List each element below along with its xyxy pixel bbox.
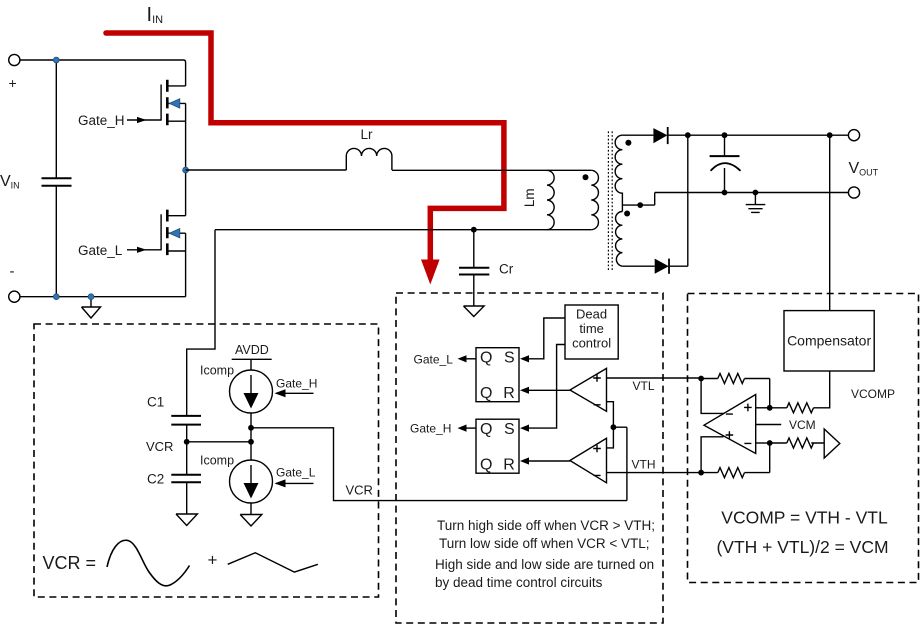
dead time control box <box>565 305 618 359</box>
transformer primary winding <box>591 170 598 229</box>
node dot bridge midpoint (blue) <box>183 167 189 173</box>
comparator VTH polarity marks <box>593 445 601 476</box>
svg-text:control: control <box>572 336 611 351</box>
inductor Lr <box>346 148 392 170</box>
ground (Cr) <box>464 306 485 317</box>
output capacitor <box>724 135 726 192</box>
wire -input <box>756 442 770 444</box>
transistor Q low-side: gate bar <box>160 214 162 250</box>
svg-text:C1: C1 <box>147 395 164 410</box>
node dot top rail (blue) <box>53 57 59 63</box>
node dot +input <box>767 405 773 411</box>
svg-text:VTH: VTH <box>632 458 656 472</box>
svg-text:High side and low side are tur: High side and low side are turned on <box>435 557 654 572</box>
svg-text:Lm: Lm <box>522 188 537 207</box>
ground (lower current source) <box>240 503 262 526</box>
svg-text:Gate_L: Gate_L <box>414 352 454 366</box>
secondary winding bottom <box>616 212 623 267</box>
resistor R3 <box>787 438 814 448</box>
diode D1 (top) <box>653 128 667 143</box>
Q low-side source/body wires <box>167 233 185 297</box>
svg-text:Gate_H: Gate_H <box>276 377 317 391</box>
input terminal - (bottom-left) <box>9 291 20 302</box>
svg-text:VCOMP: VCOMP <box>851 387 895 401</box>
Gate_H output arrow <box>461 427 476 429</box>
svg-text:S: S <box>504 350 515 367</box>
Q high-side channel dashes <box>166 80 169 126</box>
Q high-side gate wire <box>127 119 161 121</box>
svg-text:(VTH + VTL)/2 = VCM: (VTH + VTL)/2 = VCM <box>716 537 888 557</box>
wire VOUT to compensator <box>829 135 831 310</box>
diff amp triangle <box>704 395 756 454</box>
svg-text:+: + <box>9 75 17 91</box>
svg-text:time: time <box>579 321 604 336</box>
buffer VCM <box>824 429 840 458</box>
wire comp2 out to R of FF2 <box>523 460 570 462</box>
wire diff amp lower output <box>701 437 723 473</box>
node dot -input <box>767 440 773 446</box>
Q low-side channel dashes <box>166 210 169 256</box>
capacitor C2 <box>186 442 188 514</box>
node dot VCR left <box>184 439 190 445</box>
Gate_L arrow into source <box>276 482 314 484</box>
diode D2 (bottom) <box>655 259 669 274</box>
svg-text:Lr: Lr <box>361 127 374 142</box>
svg-text:Turn high side off when VCR >: Turn high side off when VCR > VTH; <box>437 518 655 533</box>
svg-text:+: + <box>208 551 218 570</box>
Gate_L output arrow <box>461 358 476 360</box>
wire VCR node <box>187 441 251 443</box>
svg-text:Q: Q <box>480 385 492 402</box>
resistor R4 <box>718 468 745 478</box>
AVDD supply bar <box>232 359 272 370</box>
wire VTL <box>607 377 702 379</box>
wire center tap <box>622 193 654 206</box>
svg-text:VCOMP = VTH - VTL: VCOMP = VTH - VTL <box>721 508 888 528</box>
svg-text:R: R <box>503 456 515 473</box>
current source Icomp (upper) <box>230 370 273 413</box>
primary polarity dot <box>583 174 589 180</box>
node dot VCR out <box>248 425 254 431</box>
wire output top rail <box>668 134 849 136</box>
Q high-side body arrow (blue) <box>169 99 180 108</box>
svg-text:Gate_H: Gate_H <box>410 422 451 436</box>
wire DTC to S of FF1 <box>523 318 565 359</box>
capacitor C1 <box>171 416 201 425</box>
Q high-side source/body wires <box>167 103 185 170</box>
wire resonant return rail <box>215 229 591 231</box>
secondary polarity dot top <box>625 140 631 146</box>
node dot VTH feedback <box>698 470 704 476</box>
wire DTC to S of FF2 <box>523 345 565 429</box>
node dot center tap <box>637 202 643 208</box>
node dots output rails <box>685 132 691 138</box>
svg-text:VCM: VCM <box>789 418 816 432</box>
svg-text:by dead time control circuits: by dead time control circuits <box>435 575 603 590</box>
wire D2 cathode up to top rail <box>669 135 688 266</box>
svg-text:-: - <box>10 263 15 280</box>
comparator VTH <box>570 438 607 483</box>
node dot Cr <box>471 227 477 233</box>
node dot bottom rail 1 (blue) <box>53 294 59 300</box>
transformer core <box>608 131 612 271</box>
wire top rail <box>20 60 186 86</box>
sine waveform <box>107 540 190 586</box>
wire VTH <box>607 472 702 474</box>
svg-text:Cr: Cr <box>499 262 514 277</box>
Q low-side body arrow (blue) <box>169 229 180 238</box>
svg-text:Q: Q <box>480 421 492 438</box>
node dot bottom rail 2 (blue) <box>88 294 94 300</box>
svg-text:Q: Q <box>480 350 492 367</box>
svg-text:VCR: VCR <box>146 439 173 454</box>
diff amp polarity marks <box>726 404 752 444</box>
comparator VTL <box>570 368 607 411</box>
Q high-side drain <box>167 85 185 87</box>
wire Lr to transformer <box>392 169 591 171</box>
wire bridge midpoint to Lr <box>186 169 347 171</box>
comparator VTL polarity marks <box>593 374 601 405</box>
wire between current sources <box>250 413 252 460</box>
wire VCR to comparators <box>613 427 627 500</box>
svg-text:Gate_L: Gate_L <box>78 243 123 258</box>
secondary polarity dot bottom <box>624 211 630 217</box>
SR flip-flop 1 (Gate_L) <box>476 348 519 402</box>
compensator box <box>784 311 874 371</box>
svg-text:Q: Q <box>480 456 492 473</box>
svg-text:R: R <box>503 385 515 402</box>
wire output lower rail <box>655 192 849 194</box>
resistor R1 <box>718 374 745 384</box>
input terminal + (top-left) <box>9 54 20 65</box>
svg-text:Dead: Dead <box>576 307 607 322</box>
gate arrowhead <box>137 247 147 253</box>
wire VCR out <box>251 428 627 501</box>
capacitor Cr <box>473 230 475 306</box>
svg-text:S: S <box>504 421 515 438</box>
gate arrowhead <box>137 117 147 123</box>
output terminal + <box>848 130 859 141</box>
current source Icomp (lower) <box>230 460 273 503</box>
capacitor Cin plates <box>42 178 72 186</box>
svg-text:Icomp: Icomp <box>200 454 234 468</box>
svg-text:Gate_H: Gate_H <box>78 113 125 128</box>
wire secondary top to diode <box>622 134 653 136</box>
svg-text:Gate_L: Gate_L <box>276 466 316 480</box>
svg-text:C2: C2 <box>147 472 164 487</box>
Gate_H arrow into source <box>276 392 314 394</box>
Q low-side drain <box>167 170 185 216</box>
capacitor Cin vertical wires <box>55 60 57 297</box>
node dot VCR <box>248 439 254 445</box>
SR flip-flop 2 (Gate_H) <box>476 419 519 473</box>
wire Cr node to VCR sense <box>187 230 215 416</box>
Q low-side gate wire <box>127 249 161 251</box>
ground (bottom rail) <box>82 297 101 318</box>
red current path I_IN <box>106 33 504 261</box>
wire diff amp upper output <box>701 379 724 414</box>
resistor R2 <box>787 403 814 413</box>
output terminal - <box>848 187 859 198</box>
svg-text:Turn low side off when VCR < V: Turn low side off when VCR < VTL; <box>439 536 649 551</box>
red arrowhead <box>421 260 440 285</box>
svg-text:Icomp: Icomp <box>200 364 234 378</box>
wire bottom rail <box>20 296 186 298</box>
node dot VTL feedback <box>698 376 704 382</box>
wire comp1 out to R of FF1 <box>523 389 570 391</box>
dashed box VCR generator <box>34 324 379 597</box>
triangle waveform <box>228 553 318 572</box>
svg-text:VCR =: VCR = <box>43 553 97 573</box>
dashed box gate logic <box>396 293 663 623</box>
ground (output, earth style) <box>746 193 766 213</box>
node dot VCR (comparators) <box>611 424 617 430</box>
dashed box VTH/VTL generator <box>688 294 919 583</box>
wire compensator to R2 <box>814 371 830 408</box>
ground (C2) <box>176 514 197 526</box>
wire +input <box>756 407 770 409</box>
wire secondary bottom to diode <box>622 265 654 267</box>
svg-text:Compensator: Compensator <box>787 333 871 349</box>
secondary winding top <box>615 135 622 211</box>
wire VCM in <box>756 424 782 426</box>
svg-text:VCR: VCR <box>346 483 373 498</box>
inductor Lm <box>547 170 554 229</box>
wire comp1 minus to comp2 plus <box>607 402 614 448</box>
svg-text:AVDD: AVDD <box>235 343 269 357</box>
svg-text:VTL: VTL <box>633 379 655 393</box>
transistor Q high-side: gate bar <box>160 85 162 121</box>
